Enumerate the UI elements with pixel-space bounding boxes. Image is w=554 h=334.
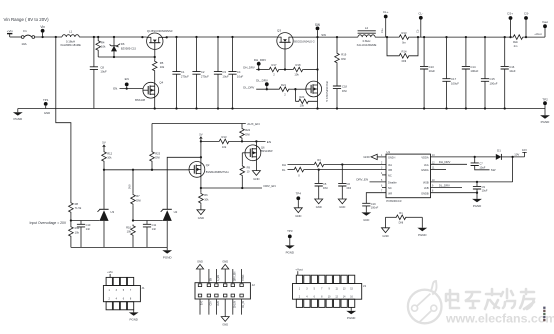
svg-text:U1: U1 <box>386 150 390 154</box>
shunt regulator U3 <box>103 170 105 210</box>
pin 6 stub <box>382 187 386 189</box>
ground R1 right PGND <box>421 217 423 228</box>
svg-text:CL-: CL- <box>418 12 423 16</box>
ground J2 bottom pin <box>224 315 226 317</box>
resistor R19 <box>336 37 338 52</box>
svg-text:GND: GND <box>316 205 322 209</box>
wire input to fuse <box>10 36 22 38</box>
svg-text:AUX: AUX <box>217 301 220 306</box>
capacitor C11 <box>146 221 148 225</box>
svg-text:L2: L2 <box>365 26 369 30</box>
svg-text:BSC016N04LS G: BSC016N04LS G <box>294 40 314 44</box>
wire L1 to Q1 <box>79 36 146 38</box>
svg-text:R1: R1 <box>399 211 403 215</box>
capacitor C18 <box>336 64 338 86</box>
testpoint CS- <box>524 36 545 38</box>
svg-text:10k: 10k <box>127 230 132 234</box>
transistor Q2 <box>200 141 202 188</box>
resistor R2 <box>293 167 305 172</box>
capacitor C4 <box>232 37 234 72</box>
svg-text:C3: C3 <box>222 70 226 74</box>
svg-text:DH: DH <box>282 163 286 167</box>
capacitor C7 bootstrap <box>474 157 476 163</box>
svg-text:Vin: Vin <box>40 25 45 29</box>
resistor R21 <box>278 87 290 92</box>
svg-text:10uF: 10uF <box>429 69 436 73</box>
svg-text:EN: EN <box>125 77 129 81</box>
svg-text:BSC016N04LS G: BSC016N04LS G <box>325 82 329 102</box>
svg-text:J3: J3 <box>363 284 366 288</box>
resistor R1 gnd tie <box>386 216 396 218</box>
resistor R9 <box>242 152 245 154</box>
svg-text:C7: C7 <box>479 161 483 165</box>
svg-text:GND: GND <box>382 234 388 238</box>
svg-text:C18: C18 <box>342 85 347 89</box>
svg-text:+Vout: +Vout <box>534 32 541 36</box>
svg-text:10uF: 10uF <box>482 189 488 193</box>
svg-text:GND: GND <box>363 155 369 159</box>
svg-text:Q6: Q6 <box>261 145 265 149</box>
svg-text:GNDB: GNDB <box>421 191 429 195</box>
svg-text:R21: R21 <box>281 83 286 87</box>
svg-text:GND: GND <box>198 216 204 220</box>
svg-text:10uF: 10uF <box>100 70 107 74</box>
svg-text:100nF: 100nF <box>371 206 379 210</box>
ground PGND rail right <box>544 109 546 116</box>
svg-text:0.18uH: 0.18uH <box>66 39 75 43</box>
resistor R5 <box>152 60 157 72</box>
svg-text:C10: C10 <box>86 223 91 227</box>
svg-text:DNI: DNI <box>155 156 160 160</box>
resistor R13 0m <box>398 35 410 40</box>
resistor R11 <box>69 226 74 238</box>
resistor R4 <box>97 37 99 40</box>
svg-text:DNI: DNI <box>245 132 250 136</box>
svg-text:R14: R14 <box>402 50 407 54</box>
svg-text:SW: SW <box>315 23 320 27</box>
svg-text:+Vin: +Vin <box>107 270 113 274</box>
svg-text:GND: GND <box>253 177 259 181</box>
svg-text:D1: D1 <box>497 148 501 152</box>
ground pin1 arrow <box>371 154 377 159</box>
svg-text:Disable: Disable <box>388 181 397 185</box>
svg-text:DNI: DNI <box>342 89 347 93</box>
svg-text:DH_DRV: DH_DRV <box>243 66 255 70</box>
svg-text:R8: R8 <box>75 202 79 206</box>
svg-text:A_EN: A_EN <box>217 275 220 281</box>
wire divider mid to U3 ref <box>71 220 100 222</box>
svg-text:DNI: DNI <box>399 221 404 225</box>
svg-text:R9: R9 <box>247 165 251 169</box>
testpoint CL- <box>419 16 423 20</box>
svg-text:10k: 10k <box>107 156 112 160</box>
svg-text:CL-: CL- <box>415 29 419 33</box>
wire zener row to Q1 gate <box>98 56 155 58</box>
svg-text:DL: DL <box>282 168 286 172</box>
svg-text:10V: 10V <box>522 148 527 152</box>
wire EN rail <box>201 140 218 142</box>
svg-text:R23: R23 <box>155 151 160 155</box>
capacitor C2 <box>196 37 198 72</box>
testpoint CS+ <box>509 16 513 20</box>
svg-text:PGND: PGND <box>347 316 355 320</box>
svg-text:GND: GND <box>44 111 50 115</box>
svg-text:VDDA: VDDA <box>421 156 428 160</box>
wire pin10 VddB <box>431 181 513 183</box>
resistor R8 <box>69 202 74 214</box>
ground PGND rail left <box>17 109 19 113</box>
svg-text:PGND: PGND <box>473 204 481 208</box>
testpoint CL+ <box>384 15 388 19</box>
svg-text:275uF: 275uF <box>201 74 209 78</box>
ground TP3 PGND <box>285 245 295 248</box>
svg-text:C11: C11 <box>152 223 157 227</box>
capacitor C17 <box>446 37 448 79</box>
wire DRV_EN <box>201 187 262 189</box>
svg-text:C9: C9 <box>482 185 486 189</box>
inductor L2 <box>358 35 375 37</box>
capacitor C5 <box>318 170 320 184</box>
svg-text:BSS138: BSS138 <box>135 98 145 102</box>
svg-text:SYNC: SYNC <box>243 274 245 281</box>
ground C5 <box>315 199 323 204</box>
svg-text:EN: EN <box>211 277 213 281</box>
net 5V0 column R7 <box>132 170 134 194</box>
wire Q1 to caps rail <box>167 36 278 38</box>
svg-text:R13: R13 <box>402 31 407 35</box>
svg-text:EN: EN <box>267 140 271 144</box>
wire pin11 stub <box>431 169 447 171</box>
svg-text:NC: NC <box>388 186 392 190</box>
ground R6 <box>197 210 205 215</box>
svg-text:10k: 10k <box>294 73 299 77</box>
svg-text:10A: 10A <box>21 42 26 46</box>
svg-text:DH_IN: DH_IN <box>234 301 236 308</box>
svg-text:D6: D6 <box>121 42 125 46</box>
ground J3 PGND <box>350 307 352 311</box>
wire R7 to U2 ref <box>133 220 163 222</box>
svg-text:GND: GND <box>222 322 228 326</box>
svg-text:J1: J1 <box>142 286 145 290</box>
svg-text:+Vin: +Vin <box>7 29 13 33</box>
svg-text:R19: R19 <box>341 53 346 57</box>
svg-text:XAL1010-802ME: XAL1010-802ME <box>357 43 377 47</box>
svg-text:Vin Range ( 8V to 20V): Vin Range ( 8V to 20V) <box>4 17 50 22</box>
testpoint TP2 <box>543 101 547 105</box>
svg-text:GND: GND <box>197 259 203 263</box>
svg-text:GND: GND <box>222 259 228 263</box>
svg-text:R7: R7 <box>136 194 140 198</box>
svg-text:TP4: TP4 <box>296 191 302 195</box>
wire 10V to VddB <box>512 157 514 182</box>
net 5V flag Q2 source <box>200 137 203 139</box>
svg-text:U3: U3 <box>110 210 114 214</box>
terminal +Vin <box>7 33 12 35</box>
svg-text:Input Overvoltage = 20V: Input Overvoltage = 20V <box>30 221 67 225</box>
resistor R17 <box>268 67 280 72</box>
ground R1 left GND <box>385 217 387 228</box>
svg-text:R12: R12 <box>107 151 112 155</box>
svg-text:10uF: 10uF <box>509 69 516 73</box>
pin 7 wire to C19 <box>366 193 386 204</box>
svg-text:0.8uH: 0.8uH <box>363 39 371 43</box>
testpoint Vin <box>41 29 45 33</box>
transistor Q3 <box>277 33 293 49</box>
pin 1 GND stub <box>377 156 386 158</box>
svg-text:C4: C4 <box>237 70 241 74</box>
diode D1 <box>496 154 502 160</box>
capacitor C16 <box>504 37 506 66</box>
svg-text:Q4: Q4 <box>159 80 163 84</box>
svg-text:DRV_EN: DRV_EN <box>264 184 276 188</box>
svg-text:DL_DRV: DL_DRV <box>439 183 450 187</box>
node Vin sense tap <box>55 36 57 38</box>
svg-text:10k: 10k <box>222 145 227 149</box>
wire Vin sense to divider <box>56 37 71 202</box>
svg-text:CS+: CS+ <box>507 12 513 16</box>
svg-text:Q1 BSC030N03NS3: Q1 BSC030N03NS3 <box>147 29 173 33</box>
svg-text:5V: 5V <box>102 141 106 145</box>
svg-text:PGND: PGND <box>163 256 173 260</box>
wire AUX_EN <box>152 123 246 125</box>
svg-text:C2: C2 <box>201 70 205 74</box>
svg-text:Rsb: Rsb <box>513 40 518 44</box>
svg-text:DL_DRV: DL_DRV <box>243 85 254 89</box>
ground C9 PGND <box>476 193 478 199</box>
ground TP4 <box>294 208 302 213</box>
svg-text:+Vout: +Vout <box>295 267 303 271</box>
svg-text:C1: C1 <box>181 70 185 74</box>
svg-text:PGND: PGND <box>418 233 426 237</box>
svg-text:CL+: CL+ <box>383 10 389 14</box>
resistor R23 <box>151 124 153 151</box>
svg-text:1nF: 1nF <box>152 227 157 231</box>
fuse F1 <box>21 36 24 39</box>
pin 4 stub <box>382 174 386 176</box>
svg-text:www.elecfans.com: www.elecfans.com <box>445 312 554 326</box>
svg-text:GND: GND <box>295 214 301 218</box>
op-amp U1 driver IC <box>386 154 431 198</box>
watermark tiny vertical red text <box>543 307 545 309</box>
svg-text:DNI: DNI <box>323 186 328 190</box>
testpoint DL_DRV <box>265 82 269 86</box>
svg-text:10k: 10k <box>101 44 106 48</box>
svg-text:L1: L1 <box>69 29 73 33</box>
svg-text:10uF: 10uF <box>237 74 244 78</box>
svg-text:Vout: Vout <box>542 20 548 24</box>
svg-text:C6: C6 <box>347 182 351 186</box>
wire SW to L2 <box>318 36 358 38</box>
svg-text:GNDA: GNDA <box>421 168 429 172</box>
ground C6 <box>338 199 346 204</box>
wire Q1 gate down <box>154 43 156 60</box>
svg-text:ViB: ViB <box>388 168 392 172</box>
svg-text:275uF: 275uF <box>181 74 189 78</box>
wire SW vertical to Q5 <box>317 37 319 108</box>
svg-text:Q2: Q2 <box>206 163 210 167</box>
resistor R6 <box>200 188 202 192</box>
svg-text:U2: U2 <box>174 210 178 214</box>
svg-text:NC: NC <box>388 174 392 178</box>
svg-text:71.5k: 71.5k <box>75 206 82 210</box>
svg-text:100uF: 100uF <box>451 81 459 85</box>
svg-text:TP1: TP1 <box>43 98 49 102</box>
svg-text:R22: R22 <box>245 128 250 132</box>
svg-text:PGND: PGND <box>541 120 551 124</box>
svg-text:100uF: 100uF <box>490 81 498 85</box>
svg-text:J2: J2 <box>252 283 255 287</box>
connector J2 <box>195 283 250 299</box>
capacitor C9 <box>476 182 478 187</box>
svg-text:F1: F1 <box>23 29 27 33</box>
svg-text:BZX585-C15: BZX585-C15 <box>121 46 137 50</box>
svg-text:PGND: PGND <box>130 318 138 322</box>
svg-text:C5: C5 <box>323 182 327 186</box>
svg-text:CS-: CS- <box>524 12 529 16</box>
capacitor C1 <box>176 37 178 72</box>
svg-text:10V: 10V <box>514 152 519 156</box>
svg-text:10k: 10k <box>300 104 305 108</box>
resistor R7 <box>131 193 136 205</box>
capacitor C6 <box>341 165 343 184</box>
resistor R10 <box>131 225 136 237</box>
resistor R12 with 5V flag <box>103 150 105 152</box>
testpoint SW <box>316 27 320 31</box>
transistor Q5 <box>306 81 322 97</box>
resistor R14 DNI parallel loop <box>387 37 398 56</box>
svg-text:R18: R18 <box>296 63 301 67</box>
svg-text:VoB: VoB <box>424 186 429 190</box>
svg-text:GND: GND <box>339 205 345 209</box>
wire fuse to L1 <box>35 36 62 38</box>
svg-text:DNI: DNI <box>136 198 141 202</box>
capacitor C14 <box>465 37 467 66</box>
ground J2 top pin4 <box>222 264 229 269</box>
svg-text:R6: R6 <box>204 193 208 197</box>
wire divider bottom rail <box>71 246 167 248</box>
svg-text:ViA: ViA <box>388 163 392 167</box>
svg-text:R10: R10 <box>126 225 131 229</box>
capacitor C8 <box>93 37 95 67</box>
testpoint DH_DRV <box>257 62 261 66</box>
svg-text:AUX_EN: AUX_EN <box>247 122 259 126</box>
connector J1 <box>103 277 140 309</box>
wire 5V gate rail <box>104 169 189 171</box>
capacitor C3 <box>217 37 219 72</box>
svg-text:DRV_EN: DRV_EN <box>234 271 236 281</box>
svg-text:ViSB: ViSB <box>423 181 429 185</box>
transistor Q6 <box>255 141 257 170</box>
svg-text:10uF: 10uF <box>479 165 485 169</box>
svg-text:10k: 10k <box>160 65 165 69</box>
svg-text:XAL8080-181ME: XAL8080-181ME <box>60 43 81 47</box>
svg-text:1nF: 1nF <box>86 227 91 231</box>
svg-text:5V0: 5V0 <box>202 300 204 305</box>
svg-text:GND: GND <box>363 218 369 222</box>
resistor R18 <box>292 67 304 72</box>
svg-text:10uF: 10uF <box>222 74 229 78</box>
shunt regulator U2 <box>163 208 172 210</box>
svg-text:R5: R5 <box>160 61 164 65</box>
ground J2 top pin1 <box>196 264 203 269</box>
testpoint Vout <box>543 24 547 28</box>
svg-text:DL_IN: DL_IN <box>243 301 245 308</box>
watermark elecfans logo circle <box>408 281 442 323</box>
svg-text:ViR: ViR <box>388 191 392 195</box>
testpoint EN <box>125 83 129 87</box>
svg-text:DL_DRV: DL_DRV <box>256 79 268 83</box>
capacitor C13 <box>423 37 425 66</box>
svg-text:R13: R13 <box>222 135 227 139</box>
svg-text:R20: R20 <box>299 95 304 99</box>
svg-text:DNI: DNI <box>347 186 352 190</box>
svg-text:EN.: EN. <box>113 87 118 91</box>
svg-text:PGND: PGND <box>286 250 294 254</box>
svg-text:R17: R17 <box>272 63 277 67</box>
svg-text:BSS84AKMB62TSA1: BSS84AKMB62TSA1 <box>206 171 230 174</box>
power flag 10V <box>513 152 527 157</box>
ground PGND divider <box>166 247 168 250</box>
wire pin8 GNDB <box>431 192 478 194</box>
wire Q3 gate down <box>284 42 286 69</box>
svg-text:POWIRCC3: POWIRCC3 <box>386 199 402 203</box>
svg-text:Q3: Q3 <box>277 29 281 33</box>
transistor Q1 <box>147 33 163 49</box>
resistor R20 <box>294 89 296 101</box>
pin 13 VDDA wire <box>431 156 496 158</box>
svg-text:CS+: CS+ <box>211 300 213 305</box>
svg-text:C19: C19 <box>371 202 376 206</box>
capacitor C19 <box>362 203 370 206</box>
svg-text:100uF: 100uF <box>470 69 478 73</box>
svg-text:DRV_EN: DRV_EN <box>356 178 368 182</box>
transistor Q4 <box>143 82 159 98</box>
svg-text:GND-I: GND-I <box>388 156 396 160</box>
wire L2 to CL+ <box>375 36 398 38</box>
svg-text:SW: SW <box>321 33 326 37</box>
node Q3 gate <box>280 69 292 71</box>
svg-text:10k: 10k <box>75 230 80 234</box>
svg-text:DNI: DNI <box>341 57 346 61</box>
zener D6 <box>113 37 115 46</box>
svg-text:PGND: PGND <box>13 117 23 121</box>
svg-text:VoA: VoA <box>424 163 429 167</box>
svg-text:10k: 10k <box>204 197 209 201</box>
svg-text:TP2: TP2 <box>542 97 548 101</box>
svg-text:DNI: DNI <box>402 59 407 63</box>
resistor R13k <box>218 139 230 144</box>
resistor R3 <box>313 162 325 167</box>
svg-text:5V: 5V <box>199 132 203 136</box>
svg-text:SW: SW <box>491 168 496 172</box>
ground Q6 source <box>252 171 260 176</box>
inductor L1 <box>62 35 79 37</box>
connector J3 <box>293 275 362 307</box>
resistor R22 <box>241 124 243 128</box>
svg-text:TP3: TP3 <box>287 229 293 233</box>
svg-text:DH_DRV: DH_DRV <box>254 58 266 62</box>
capacitor C15 <box>484 37 486 79</box>
svg-text:BSS138W: BSS138W <box>261 150 273 153</box>
watermark chinese brush text <box>446 289 534 309</box>
capacitor C10 <box>80 221 82 225</box>
svg-text:CL+: CL+ <box>380 28 384 33</box>
ground J1 PGND <box>133 310 135 313</box>
svg-text:5V0: 5V0 <box>128 184 132 189</box>
svg-text:DH_DRV: DH_DRV <box>439 160 451 164</box>
wire PGND rail <box>18 108 545 110</box>
svg-text:R3: R3 <box>317 158 321 162</box>
